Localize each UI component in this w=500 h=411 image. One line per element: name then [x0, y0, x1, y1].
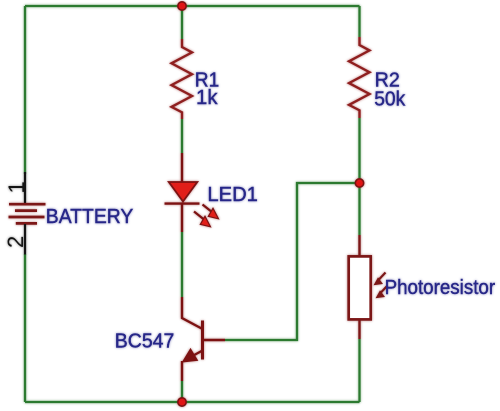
- wire emitter to bottom: [181, 381, 183, 402]
- photoresistor body: [349, 256, 371, 319]
- battery plate long top: [9, 203, 46, 206]
- battery plate long: [9, 216, 45, 219]
- wire bottom rail: [25, 401, 360, 403]
- wire R1 to LED: [181, 119, 183, 153]
- transistor Q1 collector lead: [182, 297, 203, 329]
- LED light arrow 2 head: [200, 216, 210, 227]
- transistor Q1 emitter lead: [181, 361, 183, 381]
- photoresistor light arrow 2 head: [376, 290, 386, 298]
- battery bottom lead: [24, 224, 26, 255]
- LED triangle: [169, 182, 198, 202]
- photoresistor light arrow 1 shaft: [378, 273, 386, 281]
- wire right rail lower: [358, 339, 360, 402]
- wire middle branch upper: [181, 6, 183, 39]
- junction node bottom: [178, 398, 186, 406]
- LED light arrow 2 shaft: [194, 212, 204, 220]
- battery plate short bottom: [16, 222, 37, 225]
- wire left rail upper: [24, 6, 26, 174]
- LED cathode lead: [181, 204, 183, 232]
- transistor Q1 base bar: [201, 321, 204, 360]
- transistor Q1 emitter arrowhead: [183, 349, 198, 362]
- wire LED to transistor: [181, 232, 183, 297]
- wire top rail: [25, 5, 360, 7]
- photoresistor bottom lead: [358, 320, 360, 340]
- svg-text:2: 2: [3, 236, 28, 248]
- battery plate short: [15, 209, 37, 212]
- LED cathode bar: [165, 202, 200, 204]
- LED anode lead: [181, 153, 183, 182]
- resistor R1: [172, 39, 193, 119]
- photoresistor top lead: [358, 235, 360, 256]
- svg-text:50k: 50k: [374, 87, 406, 110]
- transistor Q1 emitter diagonal: [186, 351, 203, 360]
- photoresistor light arrow 2 shaft: [380, 286, 388, 294]
- junction node top: [178, 2, 186, 10]
- wire right rail upper: [358, 6, 360, 37]
- wire left rail lower: [24, 254, 26, 402]
- wire base net: [225, 183, 360, 340]
- svg-text:1k: 1k: [196, 86, 218, 109]
- wire right rail mid: [358, 118, 360, 235]
- photoresistor light arrow 1 head: [374, 277, 384, 285]
- svg-text:1: 1: [4, 181, 29, 193]
- resistor R2: [349, 37, 370, 118]
- battery top lead: [24, 172, 26, 203]
- svg-text:LED1: LED1: [207, 183, 258, 206]
- junction node right: [355, 179, 363, 187]
- LED light arrow 1 shaft: [203, 205, 213, 213]
- svg-text:BATTERY: BATTERY: [46, 205, 134, 228]
- transistor Q1 base lead: [203, 339, 226, 341]
- svg-text:BC547: BC547: [115, 329, 175, 352]
- svg-text:Photoresistor: Photoresistor: [385, 276, 496, 299]
- LED light arrow 1 head: [208, 208, 218, 219]
